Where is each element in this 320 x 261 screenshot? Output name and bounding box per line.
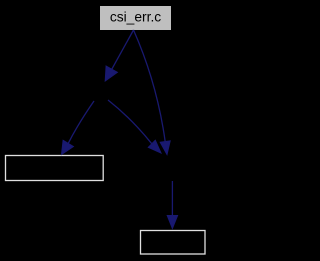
node left (empty box) [6, 156, 104, 181]
edge csi_err.c -> right node (curved arrow) [134, 30, 171, 155]
node bottom-right (empty box) [141, 231, 206, 255]
svg-text:csi_err.c: csi_err.c [110, 10, 161, 25]
edge csi_err.c -> mid node (arrow) [105, 30, 133, 81]
edge mid node -> right node (arrow) [108, 100, 161, 153]
edge right node -> bottom box (vertical arrow) [167, 181, 177, 229]
edge mid node -> left box (arrow) [62, 101, 95, 155]
node csi_err.c (root, gray) [100, 6, 171, 30]
